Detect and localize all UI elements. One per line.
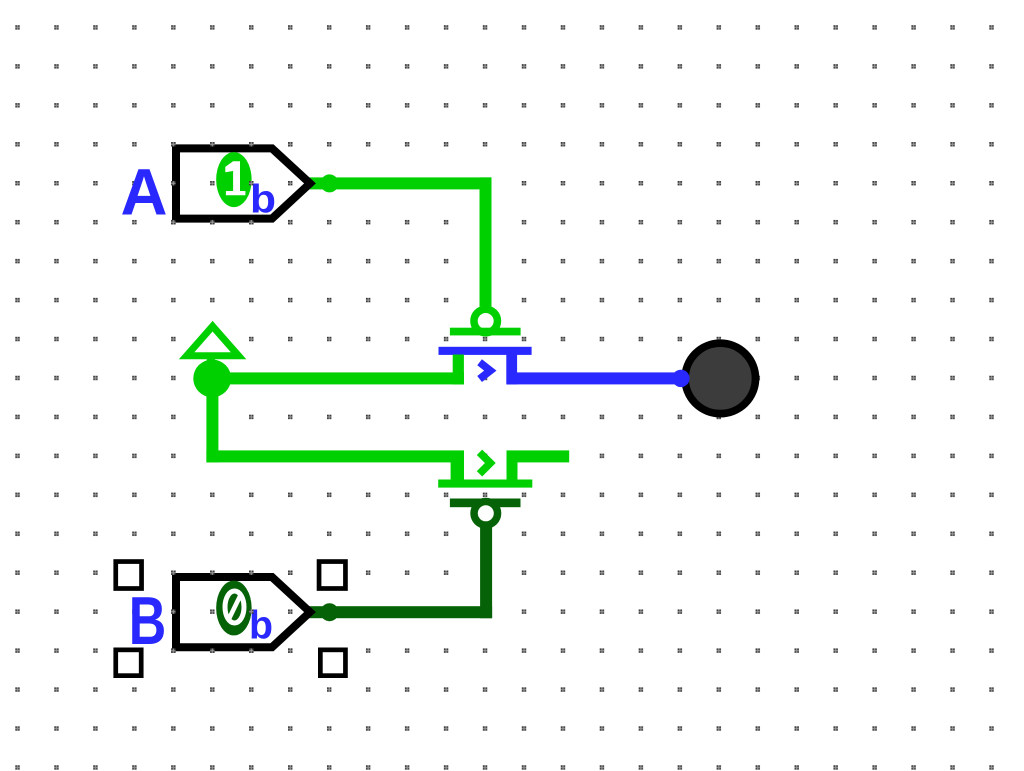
pin B value digit 0 (slashed): [225, 591, 244, 623]
power symbol (VDD triangle): [187, 326, 239, 356]
transistor Q1 source leg: [453, 355, 464, 385]
transistor Q2 (P-type, gate down) channel bar: [438, 480, 532, 488]
transistor Q2 gate plate: [450, 499, 521, 508]
wire: vertical up to bottom transistor gate: [480, 523, 492, 618]
transistor Q1 (P-type, gate up) bubble: [474, 309, 498, 333]
selection handle top-right: [319, 562, 345, 589]
transistor Q1 direction chevron: [480, 362, 491, 379]
pin A value oval (1): [216, 152, 252, 207]
transistor Q2 source leg: [451, 456, 464, 480]
transistor Q2 bubble: [474, 502, 498, 526]
wire: lower horizontal to bottom transistor source: [206, 450, 464, 462]
wire: node to top transistor source: [203, 372, 464, 384]
selection handle bottom-left: [116, 650, 141, 676]
node junction ball: [193, 360, 231, 398]
transistor Q2 direction chevron: [480, 452, 491, 474]
pin B port dot: [321, 603, 339, 621]
wire: vertical down to top transistor gate: [480, 177, 492, 306]
wire: pin A output horizontal (value 1, bright green): [308, 177, 492, 189]
pin A port dot: [321, 174, 339, 192]
svg-text:A: A: [121, 154, 168, 228]
LED port dot (blue): [672, 370, 689, 387]
wire: top transistor drain to LED (floating, blue): [511, 372, 681, 384]
pin B pentagon: [176, 577, 310, 647]
transistor Q1 channel bar: [439, 347, 532, 355]
transistor Q1 drain leg: [506, 355, 517, 385]
transistor Q1 gate plate: [450, 328, 521, 336]
wire: node down vertical: [206, 372, 218, 462]
pin B value oval (0): [216, 581, 252, 636]
transistor Q2 drain leg: [507, 456, 518, 480]
transistor Q2 drain stub wire: [507, 450, 570, 462]
pin A value digit 1: [225, 161, 245, 195]
pin A pentagon: [176, 148, 310, 218]
power stem: [207, 356, 215, 368]
LED (off, dark): [685, 343, 755, 413]
selection handle bottom-right: [320, 650, 345, 676]
selection handle top-left: [116, 562, 142, 589]
wire: pin B output horizontal (value 0, dark green): [308, 606, 492, 618]
